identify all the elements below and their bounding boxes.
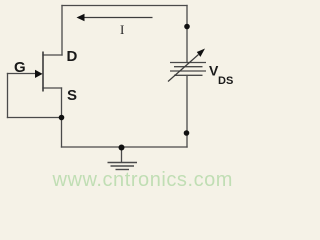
node B junction dot (ground): [119, 145, 125, 151]
wire bottom: [62, 146, 188, 148]
wire left vertical (gate to source tie): [7, 74, 9, 118]
wire ground stub: [121, 148, 123, 162]
battery V1 variable arrow: [168, 55, 199, 82]
wire drain lead: [43, 54, 62, 56]
wire drain vertical: [61, 6, 63, 56]
wire gate loop bottom: [8, 117, 62, 119]
wire gate lead: [8, 73, 37, 75]
wire right vertical lower: [186, 76, 188, 148]
node C junction dot (top right): [184, 24, 190, 30]
svg-text:I: I: [120, 22, 124, 37]
battery V1 plates: [170, 63, 206, 76]
transistor Q1 gate arrow: [35, 70, 43, 78]
node A junction dot (gate-source tie): [59, 115, 65, 121]
wire source vertical: [61, 88, 63, 147]
wire source lead: [43, 87, 62, 89]
svg-text:G: G: [14, 59, 26, 76]
ground: [108, 163, 138, 170]
svg-text:S: S: [67, 87, 77, 104]
svg-text:D: D: [67, 48, 78, 65]
svg-text:www.cntronics.com: www.cntronics.com: [52, 169, 234, 191]
wire right vertical upper: [186, 6, 188, 63]
transistor Q1 channel bar: [42, 52, 44, 92]
node D junction dot (bottom right): [184, 130, 190, 136]
wire top (drain to source loop): [62, 5, 187, 7]
svg-text:DS: DS: [218, 75, 233, 87]
current arrow I: [81, 17, 153, 19]
